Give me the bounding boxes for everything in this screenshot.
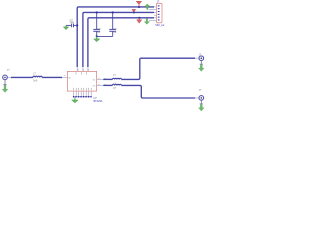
svg-text:BK3254: BK3254 [94, 100, 104, 103]
svg-text:C?: C? [113, 86, 117, 90]
svg-text:18p: 18p [70, 20, 75, 24]
svg-text:SIM_car: SIM_car [155, 24, 164, 27]
svg-text:3n9: 3n9 [33, 79, 38, 83]
